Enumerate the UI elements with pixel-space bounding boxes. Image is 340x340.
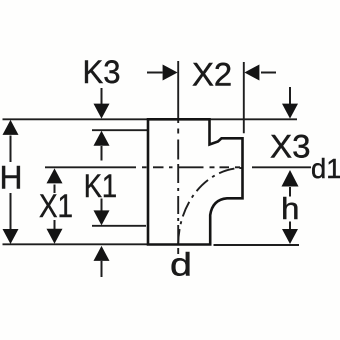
svg-text:X2: X2: [192, 57, 232, 93]
svg-text:d1: d1: [311, 153, 340, 184]
svg-text:K3: K3: [83, 54, 121, 90]
svg-text:X3: X3: [270, 129, 311, 165]
svg-text:K1: K1: [84, 168, 117, 204]
svg-text:X1: X1: [39, 188, 73, 224]
svg-text:d: d: [170, 247, 192, 283]
svg-text:h: h: [281, 191, 300, 226]
svg-text:H: H: [0, 160, 23, 196]
